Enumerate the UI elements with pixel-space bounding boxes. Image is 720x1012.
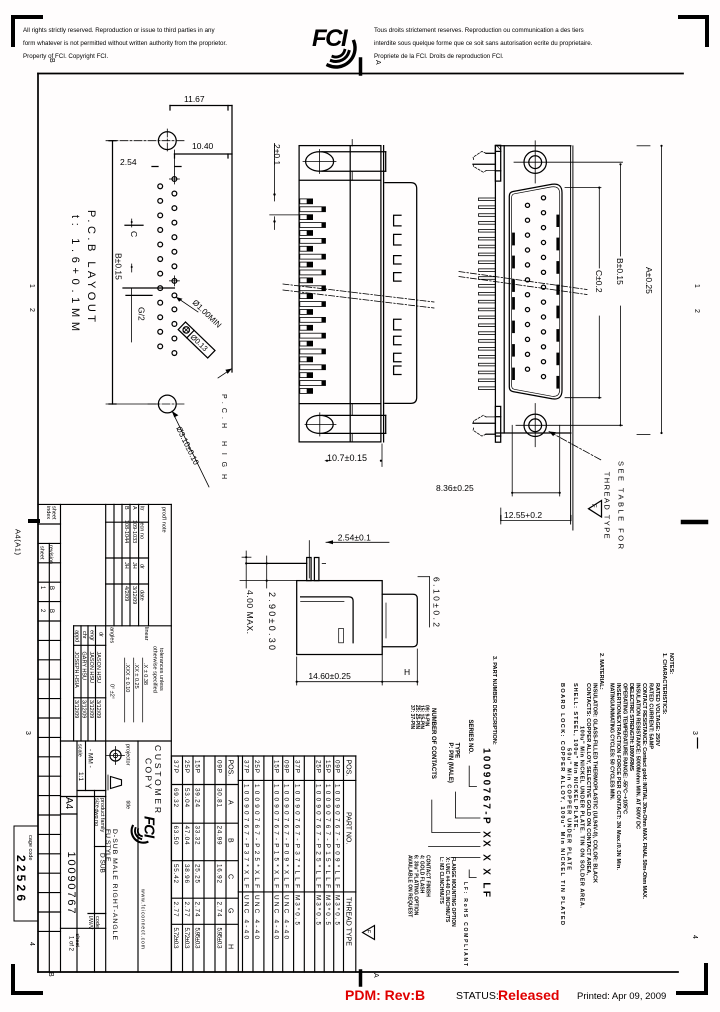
svg-text:.X ± 0.38: .X ± 0.38 bbox=[142, 663, 148, 685]
svg-text:JH: JH bbox=[123, 562, 129, 569]
svg-text:I/W/V: I/W/V bbox=[87, 916, 93, 930]
fci logo title block bbox=[132, 816, 157, 843]
svg-text:100u" Min NICKEL UNDER PLATE.: 100u" Min NICKEL UNDER PLATE. TIN ON SOL… bbox=[579, 726, 585, 908]
tolerance block texts bbox=[109, 627, 165, 699]
svg-text:INSERTION/EXTRACTION FORCE PER: INSERTION/EXTRACTION FORCE PER CONTACT: … bbox=[615, 683, 621, 870]
dimension A bbox=[637, 145, 663, 435]
svg-text:3/12/09: 3/12/09 bbox=[88, 700, 94, 718]
side pin comb bbox=[300, 199, 326, 394]
side break line pair bbox=[283, 284, 434, 308]
svg-text:5.95±0.3: 5.95±0.3 bbox=[194, 928, 201, 949]
dimension 2.54 footprint bbox=[326, 533, 389, 545]
svg-text:A: A bbox=[372, 973, 379, 978]
footprint nose bbox=[382, 594, 417, 647]
svg-text:DIELECTRIC STRENGTH: 1000VRMS: DIELECTRIC STRENGTH: 1000VRMS bbox=[628, 683, 634, 771]
svg-text:09P: 09P bbox=[216, 760, 223, 773]
svg-text:All rights strictly reserved.: All rights strictly reserved. Reproducti… bbox=[23, 27, 215, 34]
svg-text:53.04: 53.04 bbox=[183, 788, 190, 807]
svg-text:F: F bbox=[364, 930, 370, 934]
front break line pair bbox=[459, 272, 587, 295]
leader dia 3.10 mounting hole bbox=[172, 411, 209, 487]
svg-text:RATED VOLTAGE: 250V: RATED VOLTAGE: 250V bbox=[654, 683, 660, 746]
svg-text:dr: dr bbox=[139, 564, 145, 569]
scale label bbox=[77, 744, 106, 930]
svg-text:index: index bbox=[45, 506, 51, 519]
front flange outline bbox=[495, 146, 573, 530]
part table grid horizontals bbox=[238, 756, 356, 892]
svg-text:2. MATERIAL:: 2. MATERIAL: bbox=[598, 653, 604, 690]
dim table grid horizontals bbox=[172, 756, 238, 924]
pcb pin hole 1 with center cross bbox=[169, 174, 179, 184]
svg-text:P.C.B LAYOUT: P.C.B LAYOUT bbox=[85, 210, 97, 322]
svg-text:SERIES NO.: SERIES NO. bbox=[467, 720, 473, 755]
svg-text:2.74: 2.74 bbox=[216, 902, 223, 917]
svg-text:interdite sous quelque forme q: interdite sous quelque forme que ce soit… bbox=[374, 40, 593, 47]
svg-text:B: B bbox=[48, 58, 55, 63]
front boardlock bottom bbox=[473, 406, 501, 442]
svg-text:OPERATING TEMPERATURE RANGE: -: OPERATING TEMPERATURE RANGE: -55°C~+105°… bbox=[622, 683, 628, 814]
svg-text:Printed: Apr 09, 2009: Printed: Apr 09, 2009 bbox=[577, 991, 666, 1002]
svg-text:1: 1 bbox=[28, 284, 35, 288]
svg-text:B: B bbox=[227, 838, 234, 843]
svg-text:D-SUB MALE RIGHT-ANGLE: D-SUB MALE RIGHT-ANGLE bbox=[111, 829, 118, 940]
title block top edge bbox=[38, 503, 171, 505]
svg-text:10090767: 10090767 bbox=[65, 852, 77, 914]
footprint body bbox=[297, 581, 383, 655]
svg-text:15P: 15P bbox=[194, 760, 201, 773]
svg-text:form whatever is not permitted: form whatever is not permitted without w… bbox=[23, 40, 227, 47]
note pcb hole text bbox=[220, 394, 227, 479]
connector series no bbox=[469, 766, 476, 787]
side ear rivet bottom bbox=[305, 413, 386, 436]
FCI logo header bbox=[312, 25, 355, 67]
svg-text:50u" Min COPPER UNDER PLATE: 50u" Min COPPER UNDER PLATE bbox=[566, 748, 572, 870]
drawing title text bbox=[104, 829, 118, 940]
dimension C running bbox=[125, 219, 143, 237]
dimension 10.40 bbox=[175, 141, 233, 158]
pcb edge reference line bbox=[231, 106, 233, 373]
svg-text:3/12/09: 3/12/09 bbox=[73, 700, 79, 718]
side ear rivet top bbox=[303, 150, 386, 174]
pcb pin hole 8 with center cross bbox=[169, 276, 179, 286]
svg-text:engr: engr bbox=[89, 630, 95, 641]
svg-text:M3*0.5: M3*0.5 bbox=[334, 895, 341, 925]
pcb mounting hole bottom centerline horizontal bbox=[148, 403, 186, 405]
svg-text:B: B bbox=[123, 506, 129, 510]
svg-text:RATED CURRENT: 5AMP: RATED CURRENT: 5AMP bbox=[648, 683, 654, 749]
leader dia 1.00 min bbox=[176, 297, 223, 330]
dim table header texts bbox=[227, 760, 234, 950]
svg-text:INSULATION RESISTANCE: 5000Moh: INSULATION RESISTANCE: 5000Mohm MIN. AT … bbox=[635, 683, 641, 829]
dimension B±0.15 vertical pcb bbox=[106, 141, 174, 404]
svg-text:projector: projector bbox=[125, 744, 131, 766]
fold tick top center bbox=[359, 59, 363, 74]
corner trim mark bottom-left bbox=[13, 966, 41, 993]
dimension 8.36 bbox=[436, 425, 561, 496]
dimension 2 plus 0.1 bbox=[270, 143, 300, 229]
side shell contact slots bbox=[394, 215, 401, 374]
pcb mounting hole top bbox=[158, 132, 176, 150]
svg-text:- MM -: - MM - bbox=[87, 749, 94, 768]
dimension 10.7 bbox=[325, 444, 382, 467]
svg-text:M3*0.5: M3*0.5 bbox=[294, 895, 301, 925]
svg-text:5.72±0.3: 5.72±0.3 bbox=[183, 928, 190, 949]
svg-text:33.32: 33.32 bbox=[194, 826, 201, 845]
svg-text:11.67: 11.67 bbox=[184, 94, 205, 104]
svg-text:1 of 2: 1 of 2 bbox=[68, 936, 74, 952]
svg-text:63.50: 63.50 bbox=[172, 826, 179, 845]
front boardlock top bbox=[473, 145, 501, 181]
approval names texts bbox=[73, 630, 104, 718]
side shell outline bbox=[385, 183, 417, 404]
svg-text:55.42: 55.42 bbox=[172, 864, 179, 883]
corner trim mark top-left bbox=[13, 17, 41, 45]
front pin comb bbox=[479, 198, 496, 389]
svg-text:G: G bbox=[227, 908, 234, 913]
svg-text:2.77: 2.77 bbox=[183, 902, 190, 917]
svg-text:2.54: 2.54 bbox=[120, 157, 137, 167]
svg-text:PDM: Rev:B: PDM: Rev:B bbox=[345, 987, 425, 1003]
svg-text:47.04: 47.04 bbox=[183, 826, 190, 845]
side flange ear divider bottom bbox=[299, 403, 381, 405]
svg-text:size: size bbox=[94, 798, 100, 808]
svg-text:CUSTOMER: CUSTOMER bbox=[153, 745, 163, 813]
svg-text:1:1: 1:1 bbox=[77, 772, 84, 781]
svg-text:revision: revision bbox=[48, 545, 54, 564]
svg-text:Property of FCI. Copyright FC: Property of FCI. Copyright FCI. bbox=[23, 53, 109, 60]
svg-text:A: A bbox=[131, 506, 137, 510]
label contacts list bbox=[409, 705, 429, 730]
svg-text:38.96: 38.96 bbox=[183, 864, 190, 883]
svg-text:.XXX ± 0.10: .XXX ± 0.10 bbox=[124, 663, 130, 692]
svg-text:2.77: 2.77 bbox=[172, 902, 179, 917]
svg-text:CONTACT RESISTANCE: Contact go: CONTACT RESISTANCE: Contact gold: INITIA… bbox=[641, 683, 647, 899]
pcb pin hole 9 with leader bbox=[172, 293, 177, 298]
svg-text:25P: 25P bbox=[183, 760, 190, 773]
svg-text:A: A bbox=[374, 60, 381, 65]
svg-text:JASON HSU: JASON HSU bbox=[95, 652, 101, 684]
svg-text:09P: 09P bbox=[283, 760, 290, 773]
svg-text:1: 1 bbox=[693, 284, 700, 288]
svg-text:39.24: 39.24 bbox=[194, 788, 201, 807]
pin column 1 centerline bbox=[174, 150, 176, 174]
svg-text:1. CHARACTERISTICS:: 1. CHARACTERISTICS: bbox=[661, 653, 667, 715]
svg-text:C: C bbox=[227, 874, 234, 879]
svg-text:25P: 25P bbox=[253, 760, 260, 773]
svg-text:code: code bbox=[94, 916, 100, 928]
svg-text:0° ±2°: 0° ±2° bbox=[109, 684, 115, 699]
svg-text:108-1044: 108-1044 bbox=[123, 520, 129, 543]
svg-text:25P: 25P bbox=[315, 760, 322, 773]
pcb pin holes left column bbox=[158, 184, 163, 349]
svg-text:UNC 4-40: UNC 4-40 bbox=[253, 895, 260, 939]
fold tick bottom center bbox=[359, 971, 363, 985]
svg-text:MATING/UNMATING CYCLES: 50 CYC: MATING/UNMATING CYCLES: 50 CYCLES MIN. bbox=[609, 683, 615, 800]
drawing frame top line bbox=[38, 73, 683, 75]
front d-shell inner bbox=[512, 187, 560, 397]
front screw hole bottom bbox=[516, 404, 623, 447]
part table header texts bbox=[345, 760, 352, 947]
svg-text:NUMBER OF CONTACTS: NUMBER OF CONTACTS bbox=[430, 708, 436, 779]
disclaimer text french bbox=[374, 27, 593, 60]
svg-text:SHELL: STEEL, 100u" Min NICKEL: SHELL: STEEL, 100u" Min NICKEL PLATE, bbox=[572, 683, 578, 830]
svg-text:P: PIN (MALE): P: PIN (MALE) bbox=[447, 743, 453, 783]
pcb mounting hole top centerline horizontal bbox=[106, 140, 185, 142]
svg-text:CONTACTS: COPPER ALLOY, SELECT: CONTACTS: COPPER ALLOY, SELECTIVE GOLD O… bbox=[585, 683, 591, 875]
pcb mounting hole top centerline vertical bbox=[166, 129, 168, 153]
svg-text:37P: 37P bbox=[294, 760, 301, 773]
svg-text:2: 2 bbox=[693, 309, 700, 313]
svg-text:2±0.1: 2±0.1 bbox=[272, 144, 282, 165]
connector lf bbox=[469, 870, 476, 878]
connector type bbox=[456, 792, 481, 818]
svg-text:C±0.2: C±0.2 bbox=[594, 270, 604, 293]
svg-text:5.72±0.3: 5.72±0.3 bbox=[172, 928, 179, 949]
part table grid verticals bbox=[238, 756, 355, 972]
svg-text:B±0.15: B±0.15 bbox=[615, 258, 625, 285]
svg-text:A: A bbox=[227, 800, 234, 805]
corner trim mark top-right bbox=[680, 17, 707, 45]
svg-text:D SUB: D SUB bbox=[99, 853, 106, 873]
svg-text:AVAILABLE ON REQUEST: AVAILABLE ON REQUEST bbox=[407, 855, 413, 917]
svg-text:dwg no: dwg no bbox=[93, 809, 99, 827]
svg-text:4: 4 bbox=[28, 942, 35, 946]
fold tick left mid bbox=[30, 519, 38, 523]
svg-text:otherwise specified: otherwise specified bbox=[152, 646, 158, 693]
svg-text:INSULATOR: GLASS-FILLED THERMO: INSULATOR: GLASS-FILLED THERMOPLASTIC (U… bbox=[592, 683, 598, 883]
svg-text:ecn no: ecn no bbox=[139, 523, 145, 540]
dim table grid verticals bbox=[172, 756, 227, 972]
svg-text:C: C bbox=[129, 231, 139, 237]
svg-text:.XX ± 0.25: .XX ± 0.25 bbox=[133, 663, 139, 689]
svg-text:POS.: POS. bbox=[227, 760, 234, 777]
svg-text:tolerances unless: tolerances unless bbox=[158, 648, 164, 691]
connector contact finish bbox=[429, 846, 481, 848]
svg-text:2.54±0.1: 2.54±0.1 bbox=[338, 533, 371, 543]
zone tick right mid bbox=[697, 738, 699, 748]
svg-text:title: title bbox=[125, 801, 131, 810]
svg-text:3/12/09: 3/12/09 bbox=[95, 700, 101, 718]
svg-text:15P: 15P bbox=[273, 760, 280, 773]
part table flag triangle bbox=[363, 926, 375, 940]
svg-text:3: 3 bbox=[691, 731, 698, 735]
dimension 2.90 bbox=[240, 556, 297, 650]
svg-text:4: 4 bbox=[691, 935, 698, 939]
svg-text:UNC 4-40: UNC 4-40 bbox=[273, 895, 280, 939]
svg-text:linear: linear bbox=[143, 627, 149, 641]
svg-text:H: H bbox=[404, 667, 410, 677]
svg-text:H: H bbox=[227, 944, 234, 949]
svg-text:2.74: 2.74 bbox=[194, 902, 201, 917]
label contact finish bbox=[407, 855, 431, 917]
note pcb hole arrow bbox=[218, 369, 232, 379]
connector number of contacts bbox=[432, 800, 480, 833]
svg-text:10.7±0.15: 10.7±0.15 bbox=[327, 453, 367, 463]
dimension B front bbox=[615, 163, 625, 426]
screw thread leader bbox=[549, 432, 602, 461]
svg-text:3/12/09: 3/12/09 bbox=[131, 586, 137, 604]
customer copy bbox=[144, 745, 164, 813]
front pins row1 bbox=[541, 196, 545, 379]
disclaimer text english bbox=[23, 27, 227, 60]
svg-text:B: B bbox=[48, 609, 54, 613]
side back plate strip bbox=[383, 146, 385, 442]
svg-text:sheet: sheet bbox=[39, 546, 45, 560]
cage code bracket bbox=[14, 826, 37, 921]
sheet 1 of 2 bbox=[68, 934, 81, 952]
dim table data rows bbox=[172, 760, 223, 949]
svg-text:Released: Released bbox=[498, 987, 559, 1003]
note flag triangle F bbox=[589, 501, 602, 518]
tolerance underlines bbox=[125, 658, 143, 722]
svg-text:24.99: 24.99 bbox=[216, 826, 223, 845]
svg-text:www.fciconnect.com: www.fciconnect.com bbox=[140, 889, 146, 949]
front d-shell outer bbox=[509, 184, 562, 399]
svg-text:PART NO.: PART NO. bbox=[345, 812, 352, 844]
front screw hole top bbox=[514, 141, 623, 183]
connector flange mounting bbox=[451, 857, 480, 859]
drawing frame bottom line bbox=[38, 971, 678, 973]
svg-text:37: 37-PIN: 37: 37-PIN bbox=[409, 705, 415, 730]
svg-text:UNC 4-40: UNC 4-40 bbox=[243, 895, 250, 939]
svg-text:sheet: sheet bbox=[74, 934, 80, 948]
svg-text:JOSEPH HSIA: JOSEPH HSIA bbox=[73, 652, 79, 689]
note see table for thread type bbox=[603, 461, 626, 550]
svg-text:JH: JH bbox=[131, 562, 137, 569]
svg-text:M3*0.5: M3*0.5 bbox=[324, 895, 331, 925]
svg-text:3. PART NUMBER DESCRIPTION:: 3. PART NUMBER DESCRIPTION: bbox=[491, 656, 497, 745]
sheet index label bbox=[39, 506, 57, 613]
svg-text:angles: angles bbox=[109, 627, 115, 643]
svg-text:A4(A1): A4(A1) bbox=[14, 529, 23, 556]
svg-text:30.81: 30.81 bbox=[216, 788, 223, 807]
side flange outline bbox=[299, 146, 381, 442]
svg-text:12.55+0.2: 12.55+0.2 bbox=[504, 510, 542, 520]
svg-text:14.60±0.25: 14.60±0.25 bbox=[308, 671, 351, 681]
front pins row2 bbox=[525, 203, 529, 371]
label flange mounting option bbox=[438, 857, 456, 927]
svg-text:2.90±0.30: 2.90±0.30 bbox=[267, 592, 277, 650]
side flange inner line bbox=[349, 146, 351, 442]
svg-text:UNC 4-40: UNC 4-40 bbox=[283, 895, 290, 939]
dimension H bbox=[382, 649, 418, 685]
svg-text:15P: 15P bbox=[324, 760, 331, 773]
dimension 4.00 max bbox=[242, 551, 255, 634]
part table data rows bbox=[243, 760, 341, 939]
svg-text:POS.: POS. bbox=[345, 760, 352, 777]
side flange ear divider top bbox=[299, 179, 381, 181]
svg-text:09P: 09P bbox=[334, 760, 341, 773]
svg-text:Tous droits strictement reserv: Tous droits strictement reserves. Reprod… bbox=[374, 27, 584, 34]
drawing frame left line bbox=[37, 74, 39, 973]
svg-text:ltr: ltr bbox=[139, 506, 145, 511]
svg-text:Propriete de la FCI. Droits d: Propriete de la FCI. Droits de reproduct… bbox=[374, 53, 504, 60]
fold tick right mid bbox=[683, 520, 706, 525]
projection symbol circle bbox=[107, 747, 125, 765]
svg-text:10.40: 10.40 bbox=[192, 141, 214, 151]
svg-text:37P: 37P bbox=[172, 760, 179, 773]
svg-text:THREAD TYPE: THREAD TYPE bbox=[603, 472, 612, 539]
svg-text:25.25: 25.25 bbox=[194, 864, 201, 883]
svg-text:G/2: G/2 bbox=[137, 307, 147, 321]
dimension G/2 bbox=[126, 288, 152, 342]
svg-text:B: B bbox=[48, 586, 54, 590]
pcb mounting hole bottom bbox=[158, 395, 176, 413]
svg-text:JASON HSU: JASON HSU bbox=[88, 652, 94, 684]
svg-text:4.00 MAX.: 4.00 MAX. bbox=[245, 590, 255, 634]
svg-text:A±0.25: A±0.25 bbox=[644, 267, 654, 294]
projection symbol cone bbox=[108, 775, 122, 790]
svg-text:STATUS:: STATUS: bbox=[456, 990, 499, 1002]
title block main verticals bbox=[49, 504, 171, 972]
dimension 11.67 bbox=[170, 94, 232, 110]
svg-text:3/12/09: 3/12/09 bbox=[81, 700, 87, 718]
corner trim mark bottom-right bbox=[678, 965, 706, 993]
svg-text:5.95±0.3: 5.95±0.3 bbox=[216, 928, 223, 949]
svg-text:dr: dr bbox=[98, 632, 104, 637]
svg-text:4/2/09: 4/2/09 bbox=[123, 586, 129, 601]
svg-text:THREAD TYPE: THREAD TYPE bbox=[345, 897, 352, 946]
dimension C front bbox=[565, 187, 604, 399]
revision table texts bbox=[123, 506, 167, 604]
footprint inner contour bbox=[301, 597, 354, 643]
svg-text:appd: appd bbox=[74, 630, 80, 642]
svg-text:8.36±0.25: 8.36±0.25 bbox=[436, 483, 474, 493]
dimension 12.55 bbox=[501, 508, 571, 524]
svg-text:chr: chr bbox=[81, 631, 87, 639]
svg-text:TYPE: TYPE bbox=[454, 743, 460, 759]
side centerline ticks bbox=[351, 140, 353, 147]
svg-text:3: 3 bbox=[24, 731, 31, 735]
pcb pin holes right column bbox=[172, 191, 177, 355]
revision table horizontals bbox=[61, 522, 172, 928]
svg-text:69.32: 69.32 bbox=[172, 788, 179, 807]
svg-text:M3*0.5: M3*0.5 bbox=[315, 895, 322, 925]
front shell dimples right bbox=[556, 216, 559, 387]
feature control frame position 0.13 bbox=[178, 322, 215, 358]
svg-text:L: M3 CLINCHNUTS: L: M3 CLINCHNUTS bbox=[438, 857, 444, 905]
svg-text:scale: scale bbox=[77, 744, 83, 757]
svg-text:B±0.15: B±0.15 bbox=[114, 253, 124, 280]
svg-text:date: date bbox=[139, 590, 145, 601]
footprint pins bbox=[307, 541, 326, 581]
svg-text:109-1033: 109-1033 bbox=[131, 520, 137, 543]
svg-text:GARY HSU: GARY HSU bbox=[81, 652, 87, 681]
dimension 2.54 column pitch bbox=[120, 157, 181, 167]
svg-text:16.92: 16.92 bbox=[216, 864, 223, 883]
svg-text:BOARD LOCK: COPPER ALLOY, 100u: BOARD LOCK: COPPER ALLOY, 100u" Min NICK… bbox=[559, 683, 565, 925]
svg-text:37P: 37P bbox=[243, 760, 250, 773]
svg-text:prod'l note: prod'l note bbox=[161, 507, 167, 533]
svg-text:F: F bbox=[590, 504, 596, 508]
footprint pin tip line bbox=[246, 562, 307, 564]
svg-text:2: 2 bbox=[28, 308, 35, 312]
dimension 6.10 bbox=[418, 577, 442, 628]
sheet index ladder rungs bbox=[38, 524, 61, 931]
svg-text:LF: RoHS COMPLIANT: LF: RoHS COMPLIANT bbox=[462, 882, 468, 966]
front shell dimples left bbox=[512, 234, 515, 379]
svg-text:NOTES:: NOTES: bbox=[668, 653, 674, 674]
dimension 14.60 bbox=[296, 649, 384, 685]
svg-text:A4: A4 bbox=[63, 797, 74, 810]
svg-text:t: 1.6+0.1MM: t: 1.6+0.1MM bbox=[69, 215, 81, 331]
label PCB LAYOUT bbox=[69, 210, 97, 331]
